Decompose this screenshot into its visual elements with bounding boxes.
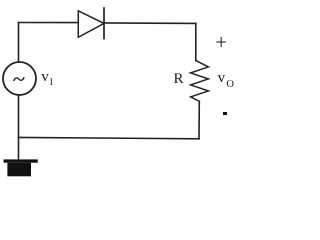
wire cathode to top-right corner (104, 22, 196, 25)
ground solid block (7, 163, 31, 177)
AC source sine tilde (14, 78, 24, 81)
label vI v (41, 69, 49, 86)
label vO subscript O (226, 79, 234, 90)
label minus dash (223, 112, 228, 115)
diode D1 cathode bar (103, 8, 105, 39)
resistor R zigzag (191, 61, 209, 102)
wire source bottom lead to ground (18, 96, 20, 160)
AC source VI circle (3, 62, 36, 95)
wire resistor bottom to bottom-right corner (198, 101, 200, 139)
label vI subscript I (50, 78, 53, 88)
wire right vertical down to resistor (195, 23, 197, 60)
wire top-left vertical (18, 23, 20, 62)
diode D1 triangle (78, 11, 104, 38)
label R (174, 71, 184, 88)
label vO v (218, 70, 226, 87)
label plus (215, 30, 227, 55)
wire bottom horizontal (19, 137, 200, 138)
wire top horizontal to diode anode (19, 22, 79, 24)
ground top bar (4, 159, 38, 162)
